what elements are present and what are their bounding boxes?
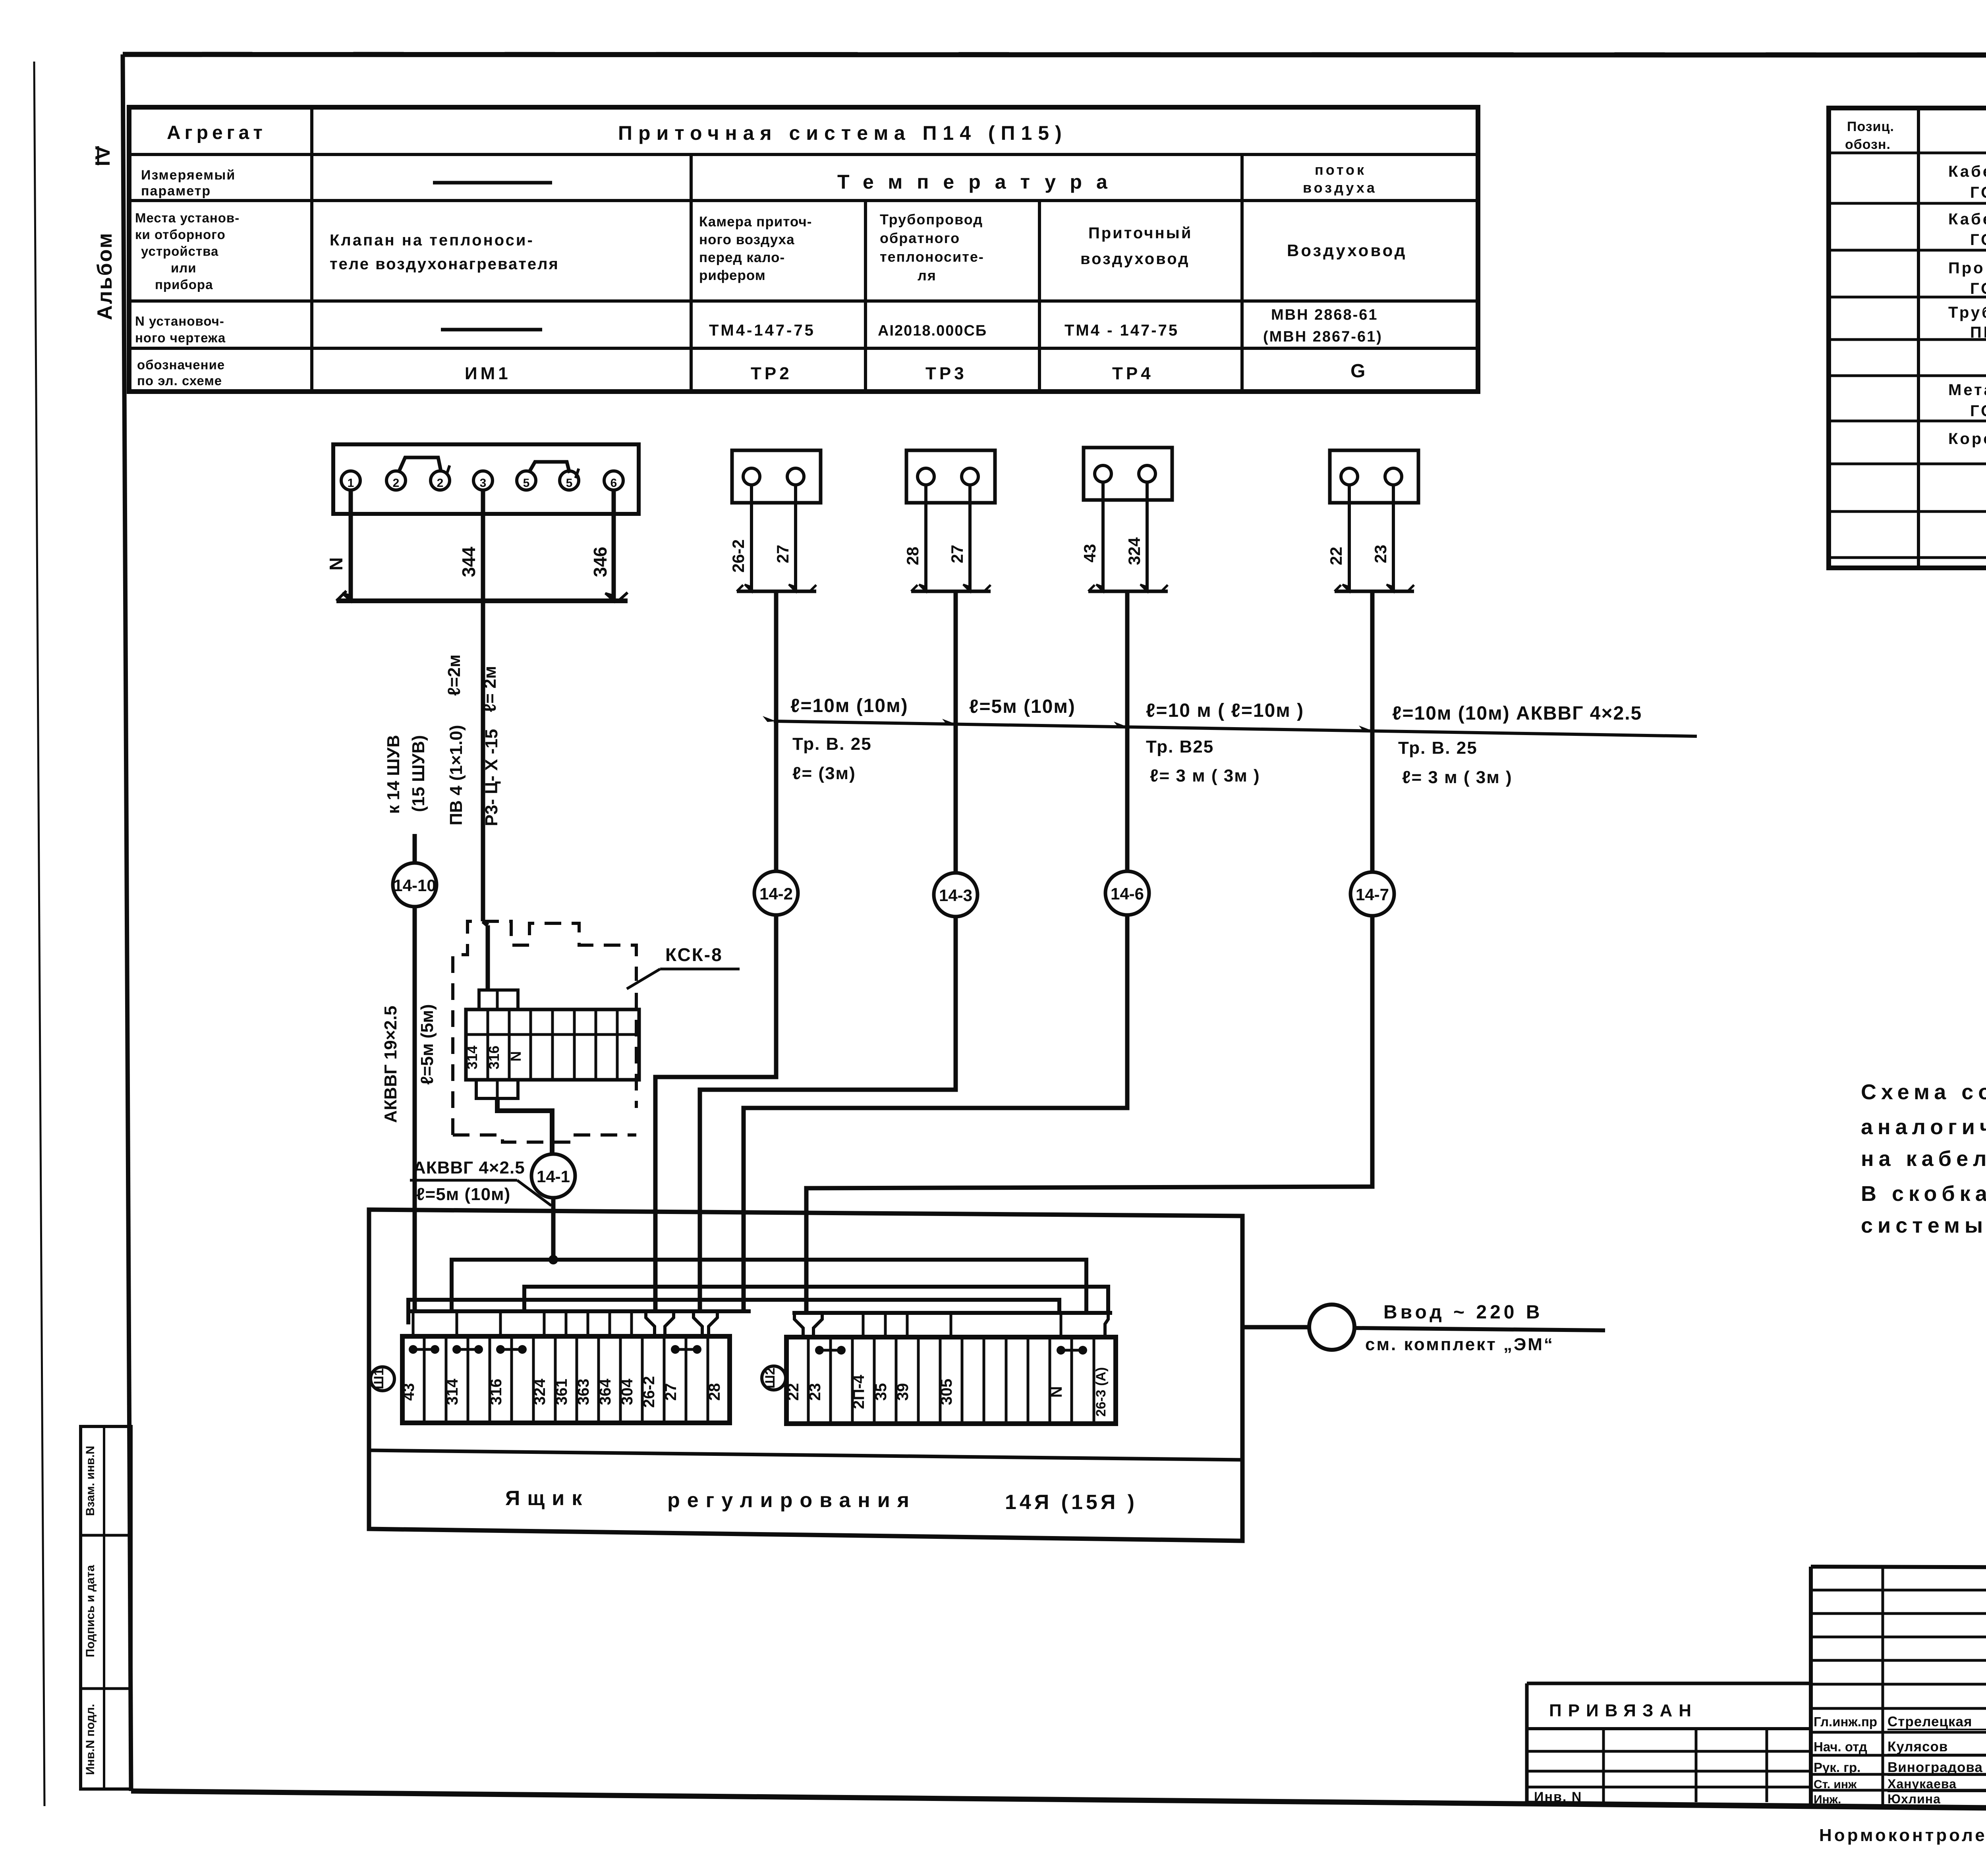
node circle 14-6 <box>1105 871 1149 915</box>
svg-text:305: 305 <box>938 1379 955 1405</box>
svg-text:23: 23 <box>806 1383 824 1401</box>
distribution line L3 <box>408 1300 1059 1324</box>
svg-text:ного чертежа: ного чертежа <box>135 330 226 345</box>
svg-text:на кабелях на 15.: на кабелях на 15. <box>1861 1147 1986 1171</box>
sensor box TP2 (26-2,27) <box>732 450 821 503</box>
svg-text:ℓ=10 м ( ℓ=10м ): ℓ=10 м ( ℓ=10м ) <box>1146 700 1304 721</box>
svg-text:26-3 (А): 26-3 (А) <box>1093 1367 1109 1417</box>
svg-text:39: 39 <box>894 1383 912 1401</box>
node circle 14-2 <box>754 871 798 915</box>
svg-text:346: 346 <box>590 547 610 577</box>
svg-text:поток: поток <box>1315 162 1366 178</box>
svg-text:(15 ШУВ): (15 ШУВ) <box>409 735 428 812</box>
svg-text:Клапан на теплоноси-: Клапан на теплоноси- <box>330 232 534 249</box>
svg-text:ℓ= 3 м ( 3м ): ℓ= 3 м ( 3м ) <box>1402 768 1513 787</box>
svg-text:361: 361 <box>553 1379 570 1405</box>
svg-text:28: 28 <box>706 1383 723 1401</box>
svg-text:Тр. В. 25: Тр. В. 25 <box>1398 738 1478 758</box>
wire 14-2 harness <box>655 915 776 1311</box>
wire 14-6 harness <box>744 915 1127 1311</box>
svg-text:системы П15.: системы П15. <box>1861 1214 1986 1237</box>
svg-text:ГОСТ 6323 - 79: ГОСТ 6323 - 79 <box>1970 280 1986 297</box>
svg-text:314: 314 <box>464 1046 480 1069</box>
svg-text:ℓ=5м (10м): ℓ=5м (10м) <box>969 696 1076 717</box>
terminal strip XT1 in box <box>402 1336 730 1423</box>
svg-text:АКВВГ 4×2.5: АКВВГ 4×2.5 <box>413 1158 525 1177</box>
funnel into 28 <box>694 1311 702 1336</box>
Vvod circle <box>1309 1305 1354 1350</box>
signature grid <box>1811 1589 1986 1592</box>
node circle 14-3 <box>934 873 978 917</box>
distribution line L2 <box>524 1287 1108 1313</box>
wire from KSK-8 to 14-1 <box>497 1098 552 1154</box>
svg-text:регулирования: регулирования <box>667 1489 916 1512</box>
svg-text:см. комплект „ЭМ“: см. комплект „ЭМ“ <box>1365 1335 1554 1354</box>
svg-text:5: 5 <box>566 477 573 490</box>
wire 14-3 harness <box>700 917 956 1311</box>
svg-text:6: 6 <box>610 477 617 490</box>
svg-text:воздуховод: воздуховод <box>1080 250 1190 268</box>
svg-text:304: 304 <box>618 1378 636 1405</box>
svg-text:22: 22 <box>1327 547 1345 566</box>
svg-text:28: 28 <box>903 547 922 566</box>
svg-text:АКВВГ 19×2.5: АКВВГ 19×2.5 <box>381 1006 400 1123</box>
svg-text:26-2: 26-2 <box>640 1376 658 1408</box>
svg-text:ТР3: ТР3 <box>925 364 967 383</box>
svg-text:G: G <box>1350 361 1365 382</box>
svg-text:Ящик: Ящик <box>505 1487 589 1510</box>
svg-text:параметр: параметр <box>141 183 211 199</box>
svg-text:Ш1: Ш1 <box>371 1368 386 1389</box>
KSK-8 terminal strip <box>466 1009 639 1080</box>
connector Sh1 <box>371 1367 394 1391</box>
svg-text:ℓ=2м: ℓ=2м <box>444 654 464 696</box>
node circle 14-7 <box>1350 872 1394 916</box>
svg-text:ℓ= (3м): ℓ= (3м) <box>792 764 856 783</box>
svg-text:N: N <box>1048 1386 1065 1398</box>
connector Sh2 <box>762 1366 786 1390</box>
svg-text:ГОСТ 3575 - 75: ГОСТ 3575 - 75 <box>1970 402 1986 420</box>
svg-text:26-2: 26-2 <box>729 539 748 573</box>
svg-text:27: 27 <box>773 545 792 564</box>
svg-text:14-1: 14-1 <box>537 1167 570 1186</box>
funnel into 26-2/27 <box>646 1311 655 1336</box>
svg-text:МВН 2868-61: МВН 2868-61 <box>1271 307 1378 323</box>
funnel into 22/23 <box>794 1313 803 1337</box>
svg-text:Труба винипластовая: Труба винипластовая <box>1948 304 1986 321</box>
cable 14-7 drop <box>1370 592 1375 872</box>
terminal strip XT2 in box <box>786 1337 1116 1424</box>
svg-text:ℓ=5м (10м): ℓ=5м (10м) <box>416 1185 510 1204</box>
svg-text:Позиц.: Позиц. <box>1847 119 1894 134</box>
svg-text:Взам. инв.N: Взам. инв.N <box>84 1446 97 1516</box>
svg-text:Тр. В25: Тр. В25 <box>1146 737 1214 757</box>
svg-text:ℓ= 2м: ℓ= 2м <box>480 666 500 712</box>
svg-text:по эл. схеме: по эл. схеме <box>137 373 222 388</box>
svg-text:N: N <box>508 1051 524 1062</box>
KSK-8 lower connector <box>476 1080 518 1098</box>
svg-text:Ввод ~ 220 В: Ввод ~ 220 В <box>1383 1302 1543 1323</box>
svg-text:ки отборного: ки отборного <box>135 227 226 242</box>
cable 14-2 drop <box>774 591 779 871</box>
svg-text:или: или <box>171 261 197 275</box>
svg-text:Камера приточ-: Камера приточ- <box>699 214 812 230</box>
svg-text:ℓ=10м (10м): ℓ=10м (10м) <box>790 695 908 716</box>
svg-text:14-3: 14-3 <box>939 886 972 905</box>
regulator box outline <box>369 1210 1242 1541</box>
svg-text:Приточная система П14 (П15: Приточная система П14 (П15) <box>618 122 1068 144</box>
svg-text:обозн.: обозн. <box>1845 137 1891 152</box>
Vvod wire right <box>1354 1328 1605 1330</box>
svg-text:ТМ4-147-75: ТМ4-147-75 <box>709 322 815 339</box>
svg-text:Кабель АКВВГ 4×2,5: Кабель АКВВГ 4×2,5 <box>1948 163 1986 180</box>
svg-text:Инв. N: Инв. N <box>1534 1789 1582 1805</box>
svg-text:рифером: рифером <box>699 268 766 283</box>
svg-text:воздуха: воздуха <box>1303 179 1377 196</box>
svg-text:Кабель АКВВГ 19×2.5: Кабель АКВВГ 19×2.5 <box>1948 210 1986 228</box>
privyazan block <box>1527 1682 1811 1685</box>
wire 346 <box>612 490 616 601</box>
svg-text:14-2: 14-2 <box>759 884 793 903</box>
svg-text:316: 316 <box>487 1379 505 1405</box>
strip2 comb wiring <box>792 1311 1112 1315</box>
jumper 5-5' <box>529 462 570 473</box>
svg-text:N: N <box>326 557 346 570</box>
svg-text:теле воздухонагревателя: теле воздухонагревателя <box>330 255 559 273</box>
terminal box XT1 (valve actuator) <box>333 444 639 514</box>
svg-text:Стрелецкая: Стрелецкая <box>1887 1714 1972 1729</box>
svg-text:ИМ1: ИМ1 <box>465 364 511 383</box>
svg-text:ТМ4 - 147-75: ТМ4 - 147-75 <box>1064 322 1179 339</box>
svg-text:Воздуховод: Воздуховод <box>1287 241 1407 260</box>
drawing frame border <box>123 54 1986 55</box>
svg-text:14-10: 14-10 <box>393 876 436 895</box>
hook into 26-3 <box>1105 1313 1108 1337</box>
paper edge line <box>34 62 44 1806</box>
wire 344 to KSK-8 <box>481 601 485 921</box>
cable 14-3 drop <box>954 592 958 873</box>
svg-text:ПВХ- В РЭП 25 УТУ6- 19- 051-: ПВХ- В РЭП 25 УТУ6- 19- 051- 249- 79 <box>1970 324 1986 341</box>
svg-text:Измеряемый: Измеряемый <box>141 168 236 183</box>
strip1 bridges <box>409 1345 417 1354</box>
svg-text:Рук. гр.: Рук. гр. <box>1814 1760 1860 1775</box>
svg-text:344: 344 <box>458 546 479 577</box>
svg-text:Ханукаева: Ханукаева <box>1887 1777 1957 1791</box>
svg-text:ℓ=10м (10м) АКВВГ 4×2.5: ℓ=10м (10м) АКВВГ 4×2.5 <box>1392 703 1642 724</box>
svg-text:Коробка соединительная КСК-: Коробка соединительная КСК-8 <box>1948 430 1986 448</box>
wire to Vvod <box>1242 1325 1309 1330</box>
svg-text:ГОСТ 1508- 78: ГОСТ 1508- 78 <box>1970 231 1986 249</box>
svg-text:14-6: 14-6 <box>1111 884 1144 903</box>
svg-text:обратного: обратного <box>880 230 960 246</box>
svg-text:Трубопровод: Трубопровод <box>880 211 983 228</box>
wire 14-1 to junction <box>551 1198 556 1260</box>
svg-text:23: 23 <box>1371 545 1390 564</box>
svg-text:N установоч-: N установоч- <box>135 314 224 328</box>
distribution line L1 <box>452 1260 1086 1313</box>
svg-text:Р3- Ц- Х -15: Р3- Ц- Х -15 <box>482 729 501 826</box>
svg-text:ного воздуха: ного воздуха <box>699 232 795 247</box>
svg-text:27: 27 <box>662 1383 680 1401</box>
svg-text:ℓ=5м (5м): ℓ=5м (5м) <box>417 1004 437 1085</box>
svg-text:Инж.: Инж. <box>1814 1793 1841 1806</box>
sensor box TP4 (43,324) <box>1084 448 1172 500</box>
svg-text:2П-4: 2П-4 <box>850 1374 867 1409</box>
svg-text:к 14 ШУВ: к 14 ШУВ <box>384 735 403 814</box>
svg-text:ℓ= 3 м ( 3м ): ℓ= 3 м ( 3м ) <box>1150 766 1260 786</box>
svg-text:КСК-8: КСК-8 <box>665 944 723 965</box>
svg-text:Кулясов: Кулясов <box>1887 1739 1948 1754</box>
svg-text:Виноградова: Виноградова <box>1887 1760 1983 1775</box>
svg-text:устройства: устройства <box>141 244 218 259</box>
svg-text:43: 43 <box>1080 544 1099 563</box>
svg-text:Ш2: Ш2 <box>763 1367 778 1388</box>
svg-text:Температура: Температура <box>837 171 1122 193</box>
sensor box G (22,23) <box>1330 450 1418 503</box>
svg-text:Провод ПВ1 1×1.0: Провод ПВ1 1×1.0 <box>1948 259 1986 277</box>
svg-text:3: 3 <box>480 477 487 490</box>
svg-text:ГОСТ 1508- 78: ГОСТ 1508- 78 <box>1970 184 1986 201</box>
jumper 2-2' <box>399 457 441 472</box>
svg-text:Металлорукав Р3 - Ц - Х - 15: Металлорукав Р3 - Ц - Х - 15 <box>1948 381 1986 399</box>
left stamp cells <box>81 1426 131 1789</box>
svg-text:Ст. инж: Ст. инж <box>1814 1778 1857 1791</box>
svg-text:314: 314 <box>444 1378 461 1405</box>
regulator box divider <box>369 1450 1242 1460</box>
wire to 14 SHUV <box>413 834 417 863</box>
svg-text:перед кало-: перед кало- <box>699 250 785 265</box>
wire N <box>349 490 353 601</box>
svg-text:14-7: 14-7 <box>1356 885 1389 904</box>
title block outline <box>1811 1567 1986 1569</box>
sensor box TP3 (28,27) <box>906 450 995 503</box>
svg-text:Приточный: Приточный <box>1088 224 1192 242</box>
wire 14-7 harness <box>806 916 1372 1313</box>
strip2 bridges <box>815 1346 824 1355</box>
svg-text:35: 35 <box>872 1383 890 1401</box>
svg-text:Агрегат: Агрегат <box>167 122 267 143</box>
svg-text:2: 2 <box>393 477 400 490</box>
svg-text:316: 316 <box>486 1046 502 1069</box>
KSK-8 junction box dashed outline <box>453 921 636 1135</box>
svg-text:Гл.инж.пр: Гл.инж.пр <box>1814 1714 1877 1729</box>
svg-text:Нач. отд: Нач. отд <box>1814 1739 1867 1754</box>
svg-text:аналогична для П15 с: аналогична для П15 с заменой индексов <box>1861 1115 1986 1139</box>
svg-text:43: 43 <box>400 1383 417 1401</box>
svg-text:АI2018.000СБ: АI2018.000СБ <box>878 322 987 339</box>
cable bus line <box>774 721 1697 736</box>
wire 344 <box>481 490 485 601</box>
svg-text:Юхлина: Юхлина <box>1887 1792 1941 1806</box>
svg-text:(МВН 2867-61): (МВН 2867-61) <box>1263 328 1383 345</box>
svg-text:14Я (15Я ): 14Я (15Я ) <box>1005 1491 1138 1514</box>
node circle 14-1 <box>531 1154 575 1198</box>
node circle 14-10 <box>393 863 437 907</box>
svg-text:22: 22 <box>784 1383 802 1401</box>
svg-text:ПРИВЯЗАН: ПРИВЯЗАН <box>1549 1701 1698 1720</box>
svg-text:2: 2 <box>437 477 444 490</box>
strip1 comb wiring <box>408 1309 751 1313</box>
terminal foot line <box>336 598 628 603</box>
svg-text:ТР4: ТР4 <box>1112 364 1154 383</box>
svg-text:прибора: прибора <box>155 277 213 292</box>
svg-text:364: 364 <box>597 1378 614 1405</box>
svg-text:363: 363 <box>575 1379 592 1405</box>
svg-text:Нормоконтролер: Нормоконтролер <box>1819 1826 1986 1845</box>
svg-text:Тр. В. 25: Тр. В. 25 <box>792 734 872 754</box>
svg-text:IV: IV <box>91 145 114 166</box>
svg-text:324: 324 <box>1125 537 1144 565</box>
svg-text:Схема составлена для с: Схема составлена для системы П14 и <box>1861 1080 1986 1104</box>
svg-text:27: 27 <box>948 545 966 564</box>
svg-text:5: 5 <box>523 477 530 490</box>
svg-text:теплоносите-: теплоносите- <box>880 249 984 265</box>
svg-text:ля: ля <box>918 267 937 284</box>
svg-text:Места установ-: Места установ- <box>135 210 240 225</box>
svg-text:Инв.N подл.: Инв.N подл. <box>84 1704 97 1775</box>
svg-text:ТР2: ТР2 <box>751 364 792 383</box>
cable 14-6 drop <box>1125 591 1130 871</box>
svg-text:324: 324 <box>531 1378 549 1405</box>
svg-text:обозначение: обозначение <box>137 357 225 372</box>
parts table grid <box>1829 108 1986 568</box>
svg-text:ПВ 4 (1×1.0): ПВ 4 (1×1.0) <box>446 725 466 826</box>
svg-text:1: 1 <box>348 477 354 490</box>
svg-text:Подпись и дата: Подпись и дата <box>84 1565 97 1657</box>
svg-text:Альбом: Альбом <box>93 232 116 320</box>
KSK-8 upper connector <box>479 990 518 1009</box>
measurement table grid <box>129 107 1478 392</box>
svg-text:В скобках указаны длины: В скобках указаны длины кабелей для <box>1861 1182 1986 1206</box>
